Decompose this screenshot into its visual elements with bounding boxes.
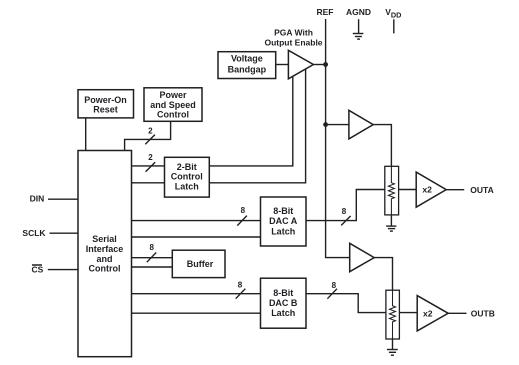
wire VDD stub — [393, 19, 395, 33]
svg-text:PGA With: PGA With — [274, 27, 313, 37]
wire serial to DAC B latch upper bus — [132, 293, 261, 295]
svg-text:SCLK: SCLK — [22, 228, 46, 238]
svg-text:Latch: Latch — [175, 181, 199, 191]
svg-text:Serial: Serial — [92, 234, 117, 244]
bus slash 8 on buffer wire — [147, 253, 156, 263]
svg-text:8: 8 — [342, 207, 347, 216]
op-amp PGA — [288, 50, 313, 79]
bus slash 8 on DAC A input bus — [237, 216, 247, 226]
svg-text:8: 8 — [332, 281, 337, 290]
svg-text:Voltage: Voltage — [231, 54, 263, 64]
wire PGA output to REF net — [313, 64, 325, 66]
block Power-On Reset — [78, 90, 134, 118]
label 2 — [148, 153, 153, 162]
svg-text:x2: x2 — [423, 309, 433, 319]
resistor string B — [386, 290, 400, 339]
svg-text:AGND: AGND — [346, 7, 371, 17]
block 8-Bit DAC B Latch — [261, 278, 307, 328]
wire 2-bit latch to PGA gain bit 1 — [209, 77, 292, 166]
svg-text:OUTB: OUTB — [471, 308, 495, 318]
wire amp B output to resistor B — [374, 258, 392, 291]
svg-text:Power: Power — [159, 90, 187, 100]
svg-text:Output Enable: Output Enable — [264, 38, 322, 48]
block Power and Speed Control — [144, 88, 202, 122]
svg-text:DAC B: DAC B — [269, 298, 298, 308]
svg-text:Control: Control — [89, 264, 121, 274]
svg-text:x2: x2 — [422, 185, 432, 195]
wire serial to DAC B latch lower — [132, 312, 261, 314]
wire x2 B to OUTB — [448, 312, 466, 314]
wire amp A output to resistor A — [373, 125, 391, 167]
op-amp A — [349, 110, 373, 139]
svg-text:DIN: DIN — [30, 194, 45, 204]
svg-text:Bandgap: Bandgap — [228, 64, 267, 74]
bus slash 8 on DAC A output — [341, 216, 350, 225]
wire bandgap to PGA — [276, 64, 289, 66]
pin OUTA label — [470, 185, 493, 195]
wire serial to buffer lower — [132, 266, 173, 268]
wire x2 A to OUTA — [446, 189, 464, 191]
svg-text:8-Bit: 8-Bit — [273, 206, 293, 216]
wire REF net vertical — [326, 19, 350, 258]
svg-text:REF: REF — [317, 7, 334, 17]
svg-text:Control: Control — [171, 172, 203, 182]
svg-text:and: and — [96, 254, 112, 264]
block 8-Bit DAC A Latch — [261, 197, 307, 246]
junction dot PGA output — [323, 62, 328, 67]
svg-text:8-Bit: 8-Bit — [273, 288, 293, 298]
ground resistor A — [386, 215, 396, 231]
svg-text:Latch: Latch — [271, 227, 295, 237]
wire DAC A latch to resistor A bus — [306, 190, 385, 221]
bus slash 8 on DAC B input bus — [236, 289, 246, 299]
bus slash 8 on DAC B output — [327, 289, 337, 299]
ground AGND — [353, 19, 364, 39]
pin VDD label — [385, 7, 401, 19]
svg-text:CS: CS — [31, 265, 43, 275]
svg-text:2: 2 — [148, 153, 153, 162]
svg-text:Interface: Interface — [86, 244, 124, 254]
block Buffer — [172, 250, 225, 277]
label 8 — [332, 281, 337, 290]
svg-text:8: 8 — [238, 281, 243, 290]
block 2-Bit Control Latch — [165, 157, 210, 197]
svg-text:2: 2 — [148, 126, 153, 135]
svg-text:Latch: Latch — [271, 308, 295, 318]
pin SCLK label — [22, 228, 46, 238]
svg-text:DAC A: DAC A — [269, 216, 298, 226]
wire serial to 2-bit latch lower — [132, 182, 165, 184]
label PGA With Output Enable — [264, 27, 322, 47]
pin REF label — [317, 7, 334, 17]
wire resistor B to x2 B — [399, 312, 417, 314]
label 8 — [238, 281, 243, 290]
block Serial Interface and Control — [78, 151, 132, 357]
wire REF net to amp A — [326, 124, 349, 126]
wire SCLK — [50, 232, 79, 234]
svg-text:8: 8 — [149, 243, 154, 252]
svg-text:Power-On: Power-On — [84, 95, 127, 105]
svg-text:Buffer: Buffer — [187, 259, 214, 269]
wire power-on reset to serial interface — [85, 118, 87, 151]
label 8 — [149, 243, 154, 252]
amplifier x2 B — [417, 296, 448, 331]
ground resistor B — [387, 339, 398, 355]
svg-text:Control: Control — [157, 110, 189, 120]
svg-text:VDD: VDD — [385, 7, 401, 19]
block Voltage Bandgap — [218, 52, 276, 79]
pin CS label with overline — [31, 265, 43, 275]
pin OUTB label — [471, 308, 495, 318]
wire power and speed control to serial interface — [125, 122, 171, 151]
label 8 — [241, 206, 246, 215]
wire serial to buffer upper bus — [132, 257, 173, 259]
label 8 — [342, 207, 347, 216]
svg-text:Reset: Reset — [93, 105, 118, 115]
wire CS — [48, 269, 78, 271]
wire serial to DAC A latch lower — [132, 236, 261, 238]
label 2 — [148, 126, 153, 135]
svg-text:8: 8 — [241, 206, 246, 215]
junction dot REF to amp A — [323, 122, 328, 127]
pin DIN label — [30, 194, 45, 204]
svg-text:OUTA: OUTA — [470, 185, 493, 195]
wire serial to DAC A latch upper bus — [132, 220, 261, 222]
svg-text:2-Bit: 2-Bit — [177, 162, 197, 172]
amplifier x2 A — [416, 172, 446, 207]
pin AGND label — [346, 7, 371, 17]
wire DIN — [48, 198, 78, 200]
bus slash 2 on latch wire — [146, 162, 156, 172]
svg-text:and Speed: and Speed — [150, 100, 196, 110]
wire DAC B latch to resistor B bus — [306, 294, 386, 313]
op-amp B — [350, 243, 375, 271]
wire resistor A to x2 A — [399, 189, 416, 191]
wire 2-bit latch to PGA gain bit 2 — [209, 69, 305, 183]
wire serial to 2-bit latch upper — [132, 165, 165, 167]
bus slash 2 on power-speed wire — [145, 135, 155, 145]
resistor string A — [385, 166, 399, 215]
